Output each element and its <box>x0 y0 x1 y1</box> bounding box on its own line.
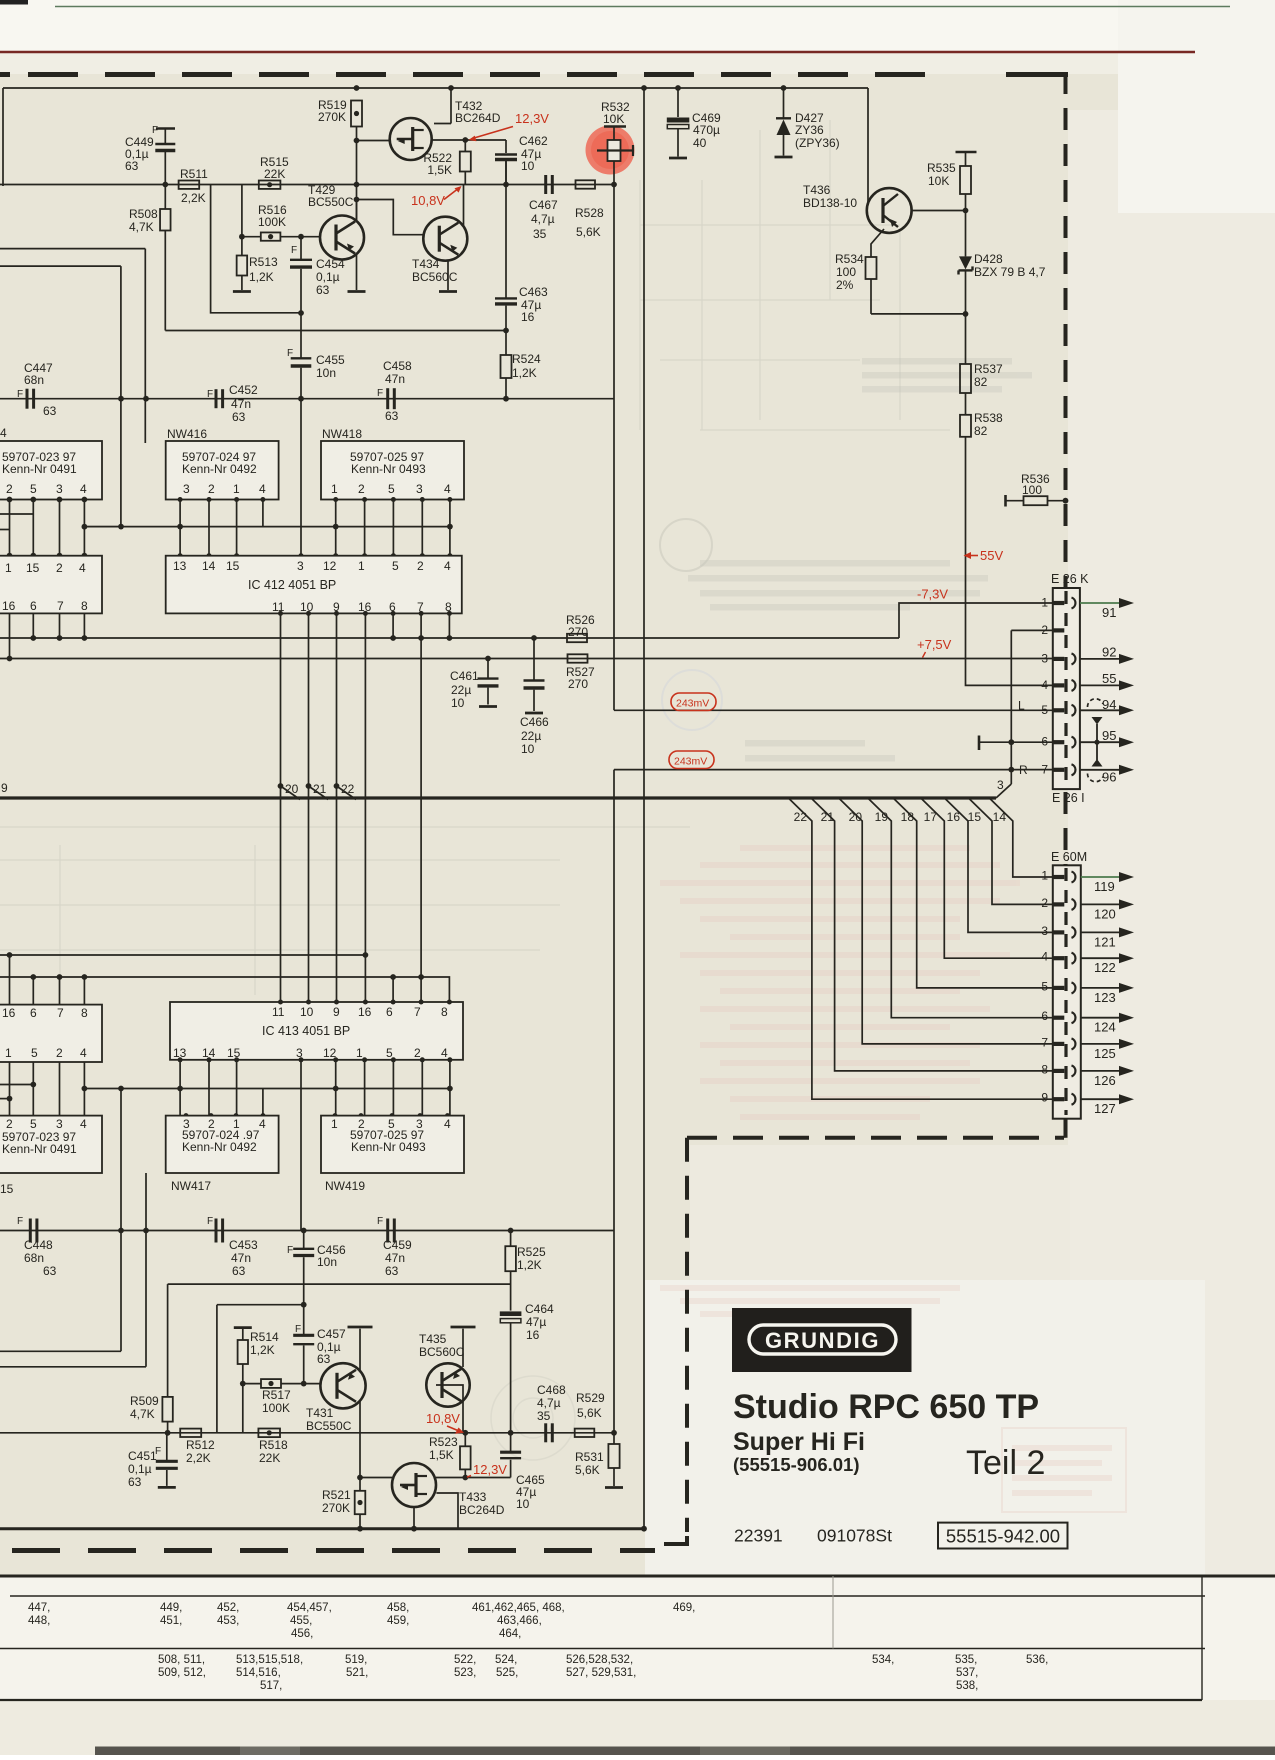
svg-text:63: 63 <box>316 283 330 297</box>
svg-text:55V: 55V <box>980 548 1003 563</box>
svg-text:4,7K: 4,7K <box>129 220 154 234</box>
svg-text:5,6K: 5,6K <box>575 1463 600 1477</box>
svg-text:C457: C457 <box>317 1327 346 1341</box>
svg-text:GRUNDIG: GRUNDIG <box>765 1328 880 1353</box>
svg-text:47n: 47n <box>385 1251 405 1265</box>
svg-text:R521: R521 <box>322 1488 351 1502</box>
svg-text:E 60M: E 60M <box>1051 850 1087 864</box>
svg-text:5: 5 <box>392 559 399 573</box>
svg-text:NW417: NW417 <box>171 1179 211 1193</box>
svg-text:2: 2 <box>417 559 424 573</box>
svg-text:BC560C: BC560C <box>412 270 458 284</box>
svg-text:Kenn-Nr 0493: Kenn-Nr 0493 <box>351 1140 426 1154</box>
svg-text:447,: 447, <box>28 1602 50 1614</box>
svg-text:NW419: NW419 <box>325 1179 365 1193</box>
svg-text:10: 10 <box>300 1005 314 1019</box>
svg-text:19: 19 <box>875 810 889 824</box>
svg-text:92: 92 <box>1102 645 1116 660</box>
svg-text:R513: R513 <box>249 255 278 269</box>
svg-text:2: 2 <box>208 482 215 496</box>
svg-text:4: 4 <box>80 1046 87 1060</box>
svg-text:126: 126 <box>1094 1073 1116 1088</box>
svg-text:68n: 68n <box>24 373 44 387</box>
svg-text:2,2K: 2,2K <box>186 1451 211 1465</box>
svg-text:270: 270 <box>568 625 588 639</box>
svg-text:R514: R514 <box>250 1330 279 1344</box>
svg-text:4: 4 <box>1041 678 1048 692</box>
svg-text:96: 96 <box>1102 770 1116 785</box>
svg-text:1: 1 <box>358 559 365 573</box>
svg-text:2: 2 <box>6 482 13 496</box>
svg-text:448,: 448, <box>28 1615 50 1627</box>
svg-text:63: 63 <box>128 1475 142 1489</box>
svg-text:4: 4 <box>259 482 266 496</box>
svg-text:63: 63 <box>317 1352 331 1366</box>
svg-text:16: 16 <box>947 810 961 824</box>
svg-text:68n: 68n <box>24 1251 44 1265</box>
svg-text:ZY36: ZY36 <box>795 123 824 137</box>
svg-text:5: 5 <box>30 1117 37 1131</box>
svg-text:T434: T434 <box>412 257 440 271</box>
svg-text:F: F <box>17 389 23 400</box>
svg-text:527, 529,531,: 527, 529,531, <box>566 1667 636 1679</box>
svg-text:459,: 459, <box>387 1615 409 1627</box>
svg-text:091078St: 091078St <box>817 1526 892 1546</box>
svg-text:5: 5 <box>1041 703 1048 717</box>
svg-text:13: 13 <box>173 559 187 573</box>
svg-text:3: 3 <box>56 482 63 496</box>
svg-text:119: 119 <box>1094 879 1115 894</box>
svg-text:451,: 451, <box>160 1615 182 1627</box>
svg-text:C452: C452 <box>229 383 258 397</box>
svg-text:5: 5 <box>30 482 37 496</box>
svg-text:270: 270 <box>568 677 588 691</box>
svg-text:455,: 455, <box>290 1615 312 1627</box>
svg-text:7: 7 <box>57 599 64 613</box>
svg-text:2,2K: 2,2K <box>181 191 206 205</box>
svg-text:270K: 270K <box>318 110 346 124</box>
svg-text:4: 4 <box>80 482 87 496</box>
svg-text:2: 2 <box>1041 623 1048 637</box>
svg-text:3: 3 <box>1041 924 1048 938</box>
svg-text:0,1µ: 0,1µ <box>316 270 340 284</box>
svg-text:35: 35 <box>537 1409 551 1423</box>
svg-text:15: 15 <box>26 561 40 575</box>
svg-text:Teil 2: Teil 2 <box>966 1444 1045 1482</box>
svg-text:-7,3V: -7,3V <box>917 587 948 602</box>
svg-text:8: 8 <box>1041 1062 1048 1076</box>
svg-text:243mV: 243mV <box>674 756 707 768</box>
svg-text:522,: 522, <box>454 1654 476 1666</box>
svg-text:C461: C461 <box>450 669 479 683</box>
svg-text:63: 63 <box>43 1264 57 1278</box>
svg-text:14: 14 <box>993 810 1007 824</box>
svg-text:15: 15 <box>0 1182 14 1196</box>
svg-text:40: 40 <box>693 136 707 150</box>
svg-text:1: 1 <box>5 561 12 575</box>
svg-text:BC550C: BC550C <box>306 1419 352 1433</box>
svg-text:243mV: 243mV <box>676 698 709 710</box>
svg-text:521,: 521, <box>346 1667 368 1679</box>
svg-text:63: 63 <box>232 410 246 424</box>
svg-text:C458: C458 <box>383 359 412 373</box>
svg-text:16: 16 <box>358 1005 372 1019</box>
svg-text:100K: 100K <box>262 1401 290 1415</box>
svg-text:2: 2 <box>1041 896 1048 910</box>
svg-text:10K: 10K <box>603 112 624 126</box>
svg-text:7: 7 <box>57 1006 64 1020</box>
svg-text:5,6K: 5,6K <box>577 1406 602 1420</box>
svg-text:1,2K: 1,2K <box>517 1258 542 1272</box>
svg-text:Kenn-Nr 0491: Kenn-Nr 0491 <box>2 1142 77 1156</box>
svg-text:2: 2 <box>414 1046 421 1060</box>
svg-text:C451: C451 <box>128 1449 157 1463</box>
svg-text:+7,5V: +7,5V <box>917 637 952 652</box>
svg-text:C466: C466 <box>520 715 549 729</box>
svg-text:BC550C: BC550C <box>308 195 354 209</box>
svg-text:F: F <box>17 1216 23 1227</box>
svg-text:10,8V: 10,8V <box>426 1411 460 1426</box>
svg-text:R508: R508 <box>129 207 158 221</box>
svg-text:0,1µ: 0,1µ <box>128 1462 152 1476</box>
svg-text:22: 22 <box>341 782 355 796</box>
svg-text:(55515-906.01): (55515-906.01) <box>733 1454 860 1475</box>
svg-text:4: 4 <box>444 1117 451 1131</box>
svg-text:10K: 10K <box>928 174 949 188</box>
svg-text:8: 8 <box>81 599 88 613</box>
svg-text:F: F <box>377 1216 383 1227</box>
svg-text:47n: 47n <box>231 397 251 411</box>
svg-text:C453: C453 <box>229 1238 258 1252</box>
svg-text:E 26 K: E 26 K <box>1051 572 1089 586</box>
svg-text:T435: T435 <box>419 1332 447 1346</box>
svg-text:R528: R528 <box>575 206 604 220</box>
svg-text:1,2K: 1,2K <box>250 1343 275 1357</box>
svg-text:6: 6 <box>1041 735 1048 749</box>
svg-text:6: 6 <box>1041 1009 1048 1023</box>
svg-text:6: 6 <box>386 1005 393 1019</box>
svg-text:35: 35 <box>533 227 547 241</box>
svg-text:IC 413 4051 BP: IC 413 4051 BP <box>262 1024 350 1038</box>
svg-text:452,: 452, <box>217 1602 239 1614</box>
svg-text:4: 4 <box>0 426 7 440</box>
svg-text:8: 8 <box>441 1005 448 1019</box>
svg-text:10n: 10n <box>316 366 336 380</box>
svg-text:95: 95 <box>1102 728 1116 743</box>
svg-text:82: 82 <box>974 424 988 438</box>
svg-text:15: 15 <box>968 810 982 824</box>
svg-text:20: 20 <box>849 810 863 824</box>
svg-text:R534: R534 <box>835 252 864 266</box>
svg-text:C463: C463 <box>519 285 548 299</box>
svg-text:458,: 458, <box>387 1602 409 1614</box>
svg-text:10: 10 <box>521 159 535 173</box>
svg-text:10: 10 <box>521 742 535 756</box>
svg-text:12,3V: 12,3V <box>473 1462 507 1477</box>
svg-text:1: 1 <box>1041 596 1048 610</box>
svg-text:Super Hi Fi: Super Hi Fi <box>733 1428 865 1456</box>
svg-text:L: L <box>1018 699 1025 713</box>
svg-text:526,528,532,: 526,528,532, <box>566 1654 633 1666</box>
svg-text:F: F <box>295 1324 301 1335</box>
svg-text:1: 1 <box>5 1046 12 1060</box>
svg-text:C464: C464 <box>525 1302 554 1316</box>
svg-text:10: 10 <box>451 696 465 710</box>
svg-text:536,: 536, <box>1026 1654 1048 1666</box>
svg-text:3: 3 <box>297 559 304 573</box>
svg-text:R525: R525 <box>517 1245 546 1259</box>
svg-text:4,7K: 4,7K <box>130 1407 155 1421</box>
svg-text:BD138-10: BD138-10 <box>803 196 857 210</box>
svg-text:82: 82 <box>974 375 988 389</box>
svg-text:4: 4 <box>441 1046 448 1060</box>
svg-text:55: 55 <box>1102 671 1116 686</box>
svg-text:11: 11 <box>272 600 285 614</box>
svg-text:Kenn-Nr 0492: Kenn-Nr 0492 <box>182 1140 257 1154</box>
svg-text:2: 2 <box>6 1117 13 1131</box>
svg-text:5: 5 <box>31 1046 38 1060</box>
svg-text:3: 3 <box>56 1117 63 1131</box>
svg-text:5: 5 <box>388 482 395 496</box>
svg-text:4: 4 <box>80 1117 87 1131</box>
svg-text:4,7µ: 4,7µ <box>531 212 555 226</box>
svg-text:BC560C: BC560C <box>419 1345 465 1359</box>
svg-text:10: 10 <box>516 1497 530 1511</box>
svg-text:4,7µ: 4,7µ <box>537 1396 561 1410</box>
svg-text:4: 4 <box>444 559 451 573</box>
svg-text:22K: 22K <box>264 167 285 181</box>
svg-text:4: 4 <box>1041 950 1048 964</box>
svg-text:10,8V: 10,8V <box>411 193 445 208</box>
svg-text:12,3V: 12,3V <box>515 111 549 126</box>
svg-text:100: 100 <box>836 265 856 279</box>
svg-text:1: 1 <box>356 1046 363 1060</box>
svg-text:C448: C448 <box>24 1238 53 1252</box>
svg-text:18: 18 <box>901 810 915 824</box>
svg-text:R524: R524 <box>512 352 541 366</box>
svg-text:47n: 47n <box>231 1251 251 1265</box>
svg-text:537,: 537, <box>956 1667 978 1679</box>
svg-text:63: 63 <box>385 1264 399 1278</box>
svg-text:2%: 2% <box>836 278 854 292</box>
svg-text:C468: C468 <box>537 1383 566 1397</box>
svg-text:1,5K: 1,5K <box>427 163 452 177</box>
svg-text:11: 11 <box>272 1005 285 1019</box>
svg-text:2: 2 <box>56 561 63 575</box>
svg-text:1: 1 <box>233 482 240 496</box>
svg-text:513,515,518,: 513,515,518, <box>236 1654 303 1666</box>
svg-text:15: 15 <box>226 559 240 573</box>
svg-text:47n: 47n <box>385 372 405 386</box>
svg-text:R509: R509 <box>130 1394 159 1408</box>
svg-text:BZX 79 B 4,7: BZX 79 B 4,7 <box>974 265 1046 279</box>
svg-text:F: F <box>155 1446 161 1457</box>
svg-text:121: 121 <box>1094 934 1116 949</box>
svg-text:BC264D: BC264D <box>459 1503 505 1517</box>
svg-text:1,2K: 1,2K <box>249 270 274 284</box>
svg-text:F: F <box>291 245 297 256</box>
svg-text:F: F <box>207 389 213 400</box>
svg-text:R518: R518 <box>259 1438 288 1452</box>
svg-text:8: 8 <box>81 1006 88 1020</box>
svg-text:63: 63 <box>43 404 57 418</box>
svg-text:1: 1 <box>331 1117 338 1131</box>
svg-text:1,2K: 1,2K <box>512 366 537 380</box>
svg-text:22391: 22391 <box>734 1526 783 1546</box>
svg-text:534,: 534, <box>872 1654 894 1666</box>
svg-text:1: 1 <box>331 482 338 496</box>
svg-text:F: F <box>207 1216 213 1227</box>
svg-text:508, 511,: 508, 511, <box>158 1654 205 1666</box>
svg-text:22: 22 <box>794 810 808 824</box>
svg-text:91: 91 <box>1102 605 1116 620</box>
svg-text:F: F <box>152 125 158 136</box>
svg-text:F: F <box>287 1245 293 1256</box>
svg-text:7: 7 <box>1041 762 1048 776</box>
svg-text:5,6K: 5,6K <box>576 225 601 239</box>
svg-text:464,: 464, <box>499 1628 521 1640</box>
svg-text:22K: 22K <box>259 1451 280 1465</box>
svg-text:6: 6 <box>30 1006 37 1020</box>
svg-text:124: 124 <box>1094 1020 1116 1035</box>
svg-text:E 26 I: E 26 I <box>1052 791 1085 805</box>
svg-text:10n: 10n <box>317 1255 337 1269</box>
svg-text:20: 20 <box>285 782 299 796</box>
svg-text:63: 63 <box>125 159 139 173</box>
svg-text:1,5K: 1,5K <box>429 1448 454 1462</box>
svg-text:Kenn-Nr 0491: Kenn-Nr 0491 <box>2 462 77 476</box>
svg-text:63: 63 <box>385 409 399 423</box>
svg-text:1: 1 <box>1041 869 1048 883</box>
svg-text:2: 2 <box>56 1046 63 1060</box>
svg-text:6: 6 <box>30 599 37 613</box>
svg-text:R517: R517 <box>262 1388 291 1402</box>
svg-text:21: 21 <box>313 782 327 796</box>
svg-text:C467: C467 <box>529 198 558 212</box>
svg-text:63: 63 <box>232 1264 246 1278</box>
svg-text:453,: 453, <box>217 1615 239 1627</box>
svg-text:9: 9 <box>333 1005 340 1019</box>
svg-text:T431: T431 <box>306 1406 334 1420</box>
svg-text:C462: C462 <box>519 134 548 148</box>
svg-text:100K: 100K <box>258 215 286 229</box>
svg-text:R529: R529 <box>576 1391 605 1405</box>
svg-text:463,466,: 463,466, <box>497 1615 542 1627</box>
svg-text:535,: 535, <box>955 1654 977 1666</box>
svg-text:2: 2 <box>358 482 365 496</box>
svg-text:(ZPY36): (ZPY36) <box>795 136 840 150</box>
svg-text:R: R <box>1019 763 1028 777</box>
svg-text:Kenn-Nr 0492: Kenn-Nr 0492 <box>182 462 257 476</box>
svg-text:R537: R537 <box>974 362 1003 376</box>
svg-text:IC 412 4051 BP: IC 412 4051 BP <box>248 578 336 592</box>
svg-text:9: 9 <box>1041 1091 1048 1105</box>
svg-text:R538: R538 <box>974 411 1003 425</box>
svg-text:D428: D428 <box>974 252 1003 266</box>
svg-text:R535: R535 <box>927 161 956 175</box>
svg-text:R531: R531 <box>575 1450 604 1464</box>
svg-text:9: 9 <box>1 781 8 795</box>
svg-text:524,: 524, <box>495 1654 517 1666</box>
svg-text:BC264D: BC264D <box>455 111 501 125</box>
svg-text:127: 127 <box>1094 1101 1116 1116</box>
svg-text:21: 21 <box>821 810 835 824</box>
svg-text:16: 16 <box>2 1006 16 1020</box>
svg-text:F: F <box>287 348 293 359</box>
svg-text:16: 16 <box>2 599 16 613</box>
svg-text:525,: 525, <box>496 1667 518 1679</box>
svg-text:514,516,: 514,516, <box>236 1667 281 1679</box>
svg-text:NW418: NW418 <box>322 427 362 441</box>
svg-text:C455: C455 <box>316 353 345 367</box>
svg-text:Kenn-Nr 0493: Kenn-Nr 0493 <box>351 462 426 476</box>
svg-text:12: 12 <box>323 559 337 573</box>
svg-text:100: 100 <box>1022 483 1042 497</box>
svg-text:461,462,465, 468,: 461,462,465, 468, <box>472 1602 565 1614</box>
svg-text:4: 4 <box>259 1117 266 1131</box>
svg-text:16: 16 <box>526 1328 540 1342</box>
svg-text:14: 14 <box>202 559 216 573</box>
svg-text:270K: 270K <box>322 1501 350 1515</box>
svg-text:3: 3 <box>183 482 190 496</box>
svg-text:449,: 449, <box>160 1602 182 1614</box>
svg-text:538,: 538, <box>956 1680 978 1692</box>
svg-text:5: 5 <box>1041 979 1048 993</box>
svg-text:NW416: NW416 <box>167 427 207 441</box>
svg-text:3: 3 <box>997 778 1004 792</box>
svg-text:15: 15 <box>227 1046 241 1060</box>
svg-text:F: F <box>377 388 383 399</box>
svg-text:125: 125 <box>1094 1046 1116 1061</box>
svg-text:523,: 523, <box>454 1667 476 1679</box>
svg-text:120: 120 <box>1094 906 1116 921</box>
svg-text:17: 17 <box>924 810 938 824</box>
svg-text:4: 4 <box>444 482 451 496</box>
svg-text:T433: T433 <box>459 1490 487 1504</box>
svg-text:22µ: 22µ <box>521 729 541 743</box>
svg-text:4: 4 <box>79 561 86 575</box>
svg-text:55515-942.00: 55515-942.00 <box>946 1526 1060 1547</box>
svg-text:454,457,: 454,457, <box>287 1602 332 1614</box>
svg-text:470µ: 470µ <box>693 123 720 137</box>
svg-text:R523: R523 <box>429 1435 458 1449</box>
svg-text:519,: 519, <box>345 1654 367 1666</box>
svg-text:122: 122 <box>1094 960 1116 975</box>
svg-text:94: 94 <box>1102 697 1116 712</box>
svg-text:517,: 517, <box>260 1680 282 1692</box>
svg-text:469,: 469, <box>673 1602 695 1614</box>
svg-text:7: 7 <box>414 1005 421 1019</box>
svg-text:3: 3 <box>416 482 423 496</box>
svg-text:R511: R511 <box>180 167 208 181</box>
svg-text:123: 123 <box>1094 990 1116 1005</box>
svg-text:47µ: 47µ <box>526 1315 546 1329</box>
svg-text:T436: T436 <box>803 183 831 197</box>
svg-text:22µ: 22µ <box>451 683 471 697</box>
svg-text:7: 7 <box>1041 1035 1048 1049</box>
svg-text:R512: R512 <box>186 1438 215 1452</box>
svg-text:456,: 456, <box>291 1628 313 1640</box>
svg-text:3: 3 <box>1041 651 1048 665</box>
svg-text:Studio RPC 650 TP: Studio RPC 650 TP <box>733 1388 1039 1426</box>
svg-text:C459: C459 <box>383 1238 412 1252</box>
svg-text:16: 16 <box>521 310 535 324</box>
svg-text:509, 512,: 509, 512, <box>158 1667 206 1679</box>
